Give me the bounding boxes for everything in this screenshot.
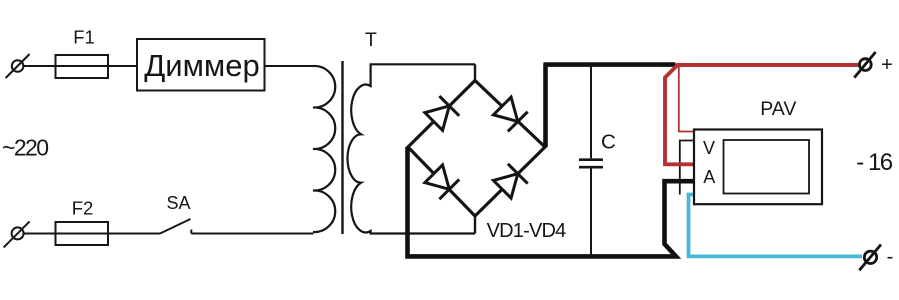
svg-text:V: V	[703, 138, 715, 158]
svg-text:~220: ~220	[2, 135, 48, 161]
svg-text:PAV: PAV	[760, 98, 796, 120]
svg-text:VD1-VD4: VD1-VD4	[487, 220, 567, 242]
svg-text:F2: F2	[72, 198, 94, 219]
svg-text:T: T	[365, 29, 377, 51]
svg-text:+: +	[881, 54, 893, 76]
svg-text:-: -	[887, 246, 894, 268]
svg-text:A: A	[703, 167, 715, 187]
svg-text:SA: SA	[166, 193, 190, 213]
svg-text:Диммер: Диммер	[144, 48, 259, 83]
svg-text:C: C	[601, 131, 616, 154]
svg-text:F1: F1	[73, 27, 95, 48]
svg-text:- 16: - 16	[856, 149, 893, 176]
